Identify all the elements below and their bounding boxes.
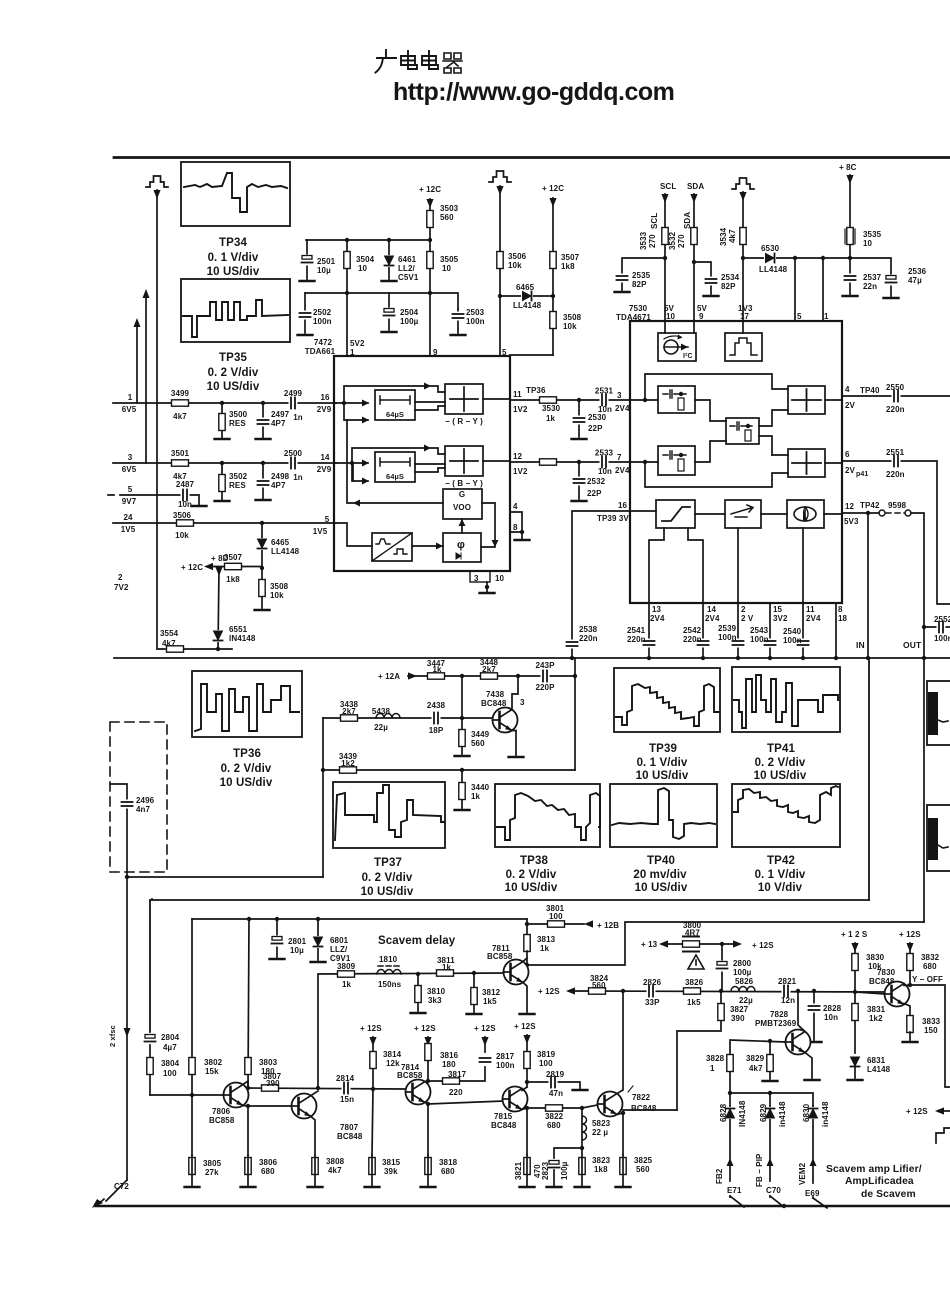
- wire 7807 emitter to 3808: [311, 1117, 315, 1156]
- svg-text:2535: 2535: [632, 271, 651, 280]
- wire 3438 corner down: [322, 718, 324, 877]
- svg-text:390: 390: [266, 1079, 280, 1088]
- resistor 3530 1k: [540, 397, 557, 403]
- ground under 6801: [311, 961, 326, 963]
- svg-text:+ 1 2 S: + 1 2 S: [841, 930, 868, 939]
- svg-text:10: 10: [442, 264, 452, 273]
- svg-text:5: 5: [325, 515, 330, 524]
- node 3832/collector: [908, 983, 912, 987]
- wire limiter legs to pins 13/14: [649, 528, 703, 603]
- svg-text:8: 8: [513, 523, 518, 532]
- svg-text:4P7: 4P7: [271, 419, 286, 428]
- svg-text:270: 270: [648, 234, 657, 248]
- svg-text:100: 100: [549, 912, 563, 921]
- capacitor 2539 100n: [732, 639, 744, 648]
- svg-text:RES: RES: [229, 419, 246, 428]
- node rail/2801: [275, 917, 279, 921]
- wire adderA to pin4: [825, 399, 842, 401]
- svg-text:http://www.go-gddq.com: http://www.go-gddq.com: [393, 78, 675, 106]
- svg-text:0. 1 V/div: 0. 1 V/div: [755, 869, 806, 881]
- resistor 3449 560: [461, 718, 463, 754]
- svg-text:2800: 2800: [733, 959, 752, 968]
- svg-text:16: 16: [320, 393, 330, 402]
- wire rail2: [305, 293, 458, 309]
- waveform TP34: [184, 173, 287, 212]
- svg-text:5438: 5438: [372, 707, 391, 716]
- svg-text:220n: 220n: [886, 470, 905, 479]
- svg-text:6801: 6801: [330, 936, 349, 945]
- wire pin2 to gnd rail: [737, 603, 739, 657]
- ground under 3810: [411, 1012, 426, 1014]
- resistor 3503 560: [429, 199, 431, 240]
- svg-text:TP36: TP36: [233, 748, 261, 760]
- svg-text:27k: 27k: [205, 1168, 219, 1177]
- capacitor 243P 220P: [518, 675, 575, 677]
- pulse glyph top-left: [146, 176, 168, 187]
- svg-text:100µ: 100µ: [400, 317, 419, 326]
- resistor 3508 10k: [261, 568, 263, 608]
- svg-text:3819: 3819: [537, 1050, 556, 1059]
- svg-text:3818: 3818: [439, 1158, 458, 1167]
- waveform TP42: [734, 786, 838, 823]
- svg-text:3829: 3829: [746, 1054, 765, 1063]
- transistor Q 7822 BC848: [598, 1092, 623, 1117]
- ground under 2534: [704, 295, 719, 297]
- svg-text:2826: 2826: [643, 978, 662, 987]
- svg-text:1k: 1k: [546, 414, 556, 423]
- svg-text:2817: 2817: [496, 1052, 515, 1061]
- svg-text:3805: 3805: [203, 1159, 222, 1168]
- ground under 3833: [909, 1032, 911, 1040]
- capacitor 2819 47n: [527, 1082, 580, 1089]
- svg-text:680: 680: [261, 1167, 275, 1176]
- svg-text:24: 24: [123, 513, 133, 522]
- node bus/7822 collector: [621, 989, 625, 993]
- svg-text:10 US/div: 10 US/div: [505, 882, 558, 894]
- net FB2 arrow: [727, 1158, 734, 1166]
- resistor 3508 10k (top): [552, 296, 554, 355]
- svg-text:VEM2: VEM2: [798, 1162, 807, 1185]
- node 1810/3810: [416, 972, 420, 976]
- resistor 3812 1k5: [473, 973, 475, 1012]
- svg-text:+ 12S: + 12S: [899, 930, 921, 939]
- wire 7438 emitter to gnd: [512, 731, 516, 756]
- resistor 3507 1k8 (top): [552, 198, 554, 296]
- wire 3806 column: [247, 1106, 249, 1155]
- svg-text:p41: p41: [856, 471, 868, 478]
- svg-text:E71: E71: [727, 1186, 742, 1195]
- node 3535/2537: [848, 256, 852, 260]
- ground under 2503: [451, 334, 466, 336]
- svg-text:3505: 3505: [440, 255, 459, 264]
- resistor 3829 4k7: [769, 1041, 771, 1079]
- wire 7830 emitter: [904, 1004, 910, 1015]
- transistor Q 7815 BC848: [503, 1087, 528, 1112]
- diode 6830 in4148: [812, 1106, 814, 1198]
- resistor (unlabeled) on pin12 wire: [540, 459, 557, 465]
- svg-text:12n: 12n: [781, 996, 795, 1005]
- svg-text:2501: 2501: [317, 257, 336, 266]
- wire limiter-mute-out: [695, 513, 725, 515]
- waveform TP41: [734, 675, 838, 728]
- svg-text:3V2: 3V2: [773, 614, 788, 623]
- svg-text:9V7: 9V7: [122, 497, 137, 506]
- transistor Q 7807 BC848: [292, 1094, 317, 1119]
- wire: pin5 to ramp: [336, 523, 372, 546]
- block I2C current source: [658, 333, 696, 361]
- warning triangle: [688, 955, 704, 969]
- svg-text:φ: φ: [457, 539, 465, 551]
- adder -(B-Y): [445, 446, 483, 476]
- svg-text:100n: 100n: [750, 635, 769, 644]
- wire base row y718: [323, 717, 492, 719]
- svg-text:10: 10: [358, 264, 368, 273]
- resistor 3813 1k: [524, 935, 530, 952]
- svg-text:C5V1: C5V1: [398, 273, 419, 282]
- svg-text:2V4: 2V4: [705, 614, 720, 623]
- svg-text:12: 12: [845, 502, 855, 511]
- node 3448/243P: [516, 674, 520, 678]
- adder -(R-Y): [445, 384, 483, 414]
- svg-text:1V5: 1V5: [313, 527, 328, 536]
- svg-text:E69: E69: [805, 1189, 820, 1198]
- resistor 3817 220: [428, 1067, 485, 1081]
- svg-text:10: 10: [666, 312, 676, 321]
- svg-text:2497: 2497: [271, 410, 290, 419]
- svg-text:220n: 220n: [683, 635, 702, 644]
- svg-text:5823: 5823: [592, 1119, 611, 1128]
- ground under 2801: [270, 958, 285, 960]
- capacitor 2497 4P7: [262, 403, 264, 438]
- capacitor 2532 22P: [578, 462, 580, 499]
- svg-text:2533: 2533: [595, 449, 614, 458]
- block 64uS (mid): [375, 452, 415, 482]
- svg-text:560: 560: [440, 213, 454, 222]
- svg-text:2k7: 2k7: [342, 707, 356, 716]
- ground under 2502: [298, 334, 313, 336]
- svg-text:3440: 3440: [471, 783, 490, 792]
- svg-text:+ 13: + 13: [641, 940, 658, 949]
- svg-text:100: 100: [163, 1069, 177, 1078]
- wire 3554 to 6551 node: [184, 648, 232, 650]
- resistor 3533 270: [662, 228, 668, 245]
- svg-text:10 US/div: 10 US/div: [207, 381, 260, 393]
- svg-text:15n: 15n: [340, 1095, 354, 1104]
- svg-text:2 V: 2 V: [741, 614, 754, 623]
- svg-text:64µS: 64µS: [386, 472, 404, 481]
- svg-text:2550: 2550: [886, 383, 905, 392]
- svg-text:18P: 18P: [429, 726, 444, 735]
- svg-text:22n: 22n: [863, 282, 877, 291]
- svg-text:64µS: 64µS: [386, 410, 404, 419]
- svg-text:3500: 3500: [229, 410, 248, 419]
- svg-text:7V2: 7V2: [114, 583, 129, 592]
- svg-text:+ 12S: + 12S: [360, 1024, 382, 1033]
- ground under 2498: [256, 499, 271, 501]
- node bus2/3502: [220, 461, 224, 465]
- svg-text:22P: 22P: [588, 424, 603, 433]
- svg-text:3534: 3534: [719, 227, 728, 246]
- svg-text:1V5: 1V5: [121, 525, 136, 534]
- svg-text:100n: 100n: [466, 317, 485, 326]
- resistor 3554 4k7: [167, 646, 184, 652]
- svg-text:12: 12: [513, 452, 523, 461]
- wire out leg to pin 11: [802, 528, 804, 603]
- resistor 3802 15k: [189, 1058, 195, 1075]
- svg-text:3814: 3814: [383, 1050, 402, 1059]
- svg-text:10 US/div: 10 US/div: [636, 770, 689, 782]
- node bus/2828: [812, 989, 816, 993]
- svg-text:+ 12S: + 12S: [414, 1024, 436, 1033]
- wire 7828 base bus: [730, 1040, 786, 1093]
- wire delayB to mid: [695, 441, 788, 462]
- ground under 3812: [467, 1013, 482, 1015]
- svg-text:270: 270: [677, 234, 686, 248]
- svg-text:100µ: 100µ: [733, 968, 752, 977]
- svg-text:5: 5: [797, 312, 802, 321]
- svg-text:2438: 2438: [427, 701, 446, 710]
- svg-text:7530: 7530: [629, 304, 648, 313]
- svg-text:10µ: 10µ: [290, 946, 304, 955]
- node base/3449: [460, 716, 464, 720]
- wire pin3 node and upper loop: [630, 374, 788, 400]
- supply +12B arrow: [584, 920, 593, 927]
- resistor 3807 390: [262, 1085, 279, 1091]
- svg-text:3833: 3833: [922, 1017, 941, 1026]
- capacitor 2504 100u electrolytic: [388, 293, 390, 330]
- wire 7828 collector: [798, 991, 805, 1032]
- svg-text:+ 12B: + 12B: [597, 921, 619, 930]
- diode 6828 IN4148: [729, 1093, 731, 1197]
- resistor 3499: [172, 400, 189, 406]
- svg-text:BC858: BC858: [487, 952, 513, 961]
- svg-text:10n: 10n: [598, 405, 612, 414]
- svg-text:82P: 82P: [632, 280, 647, 289]
- resistor 3815 39k: [372, 1089, 373, 1155]
- wire pin11 to pin3: [510, 399, 630, 401]
- svg-text:15: 15: [773, 605, 783, 614]
- svg-text:2801: 2801: [288, 937, 307, 946]
- svg-text:2823: 2823: [541, 1161, 550, 1180]
- wire 3809 feed: [318, 973, 505, 1088]
- svg-text:1V2: 1V2: [513, 405, 528, 414]
- wire to TP37 area left: [127, 876, 323, 878]
- svg-text:2V4: 2V4: [615, 466, 630, 475]
- svg-text:2V4: 2V4: [615, 404, 630, 413]
- label 2xfsc rotated: [108, 1025, 117, 1047]
- svg-text:TP38: TP38: [520, 855, 548, 867]
- arrow down into wire: [153, 190, 160, 199]
- svg-text:4k7: 4k7: [173, 412, 187, 421]
- node bus2/2498: [261, 461, 265, 465]
- ground under 3502: [215, 500, 230, 502]
- resistor 3809 1k: [338, 971, 355, 977]
- svg-text:Scavem amp Lifier/: Scavem amp Lifier/: [826, 1164, 922, 1175]
- resistor 3439 1k2: [340, 767, 357, 773]
- node 3814/3815: [371, 1087, 375, 1091]
- wire 3802 column: [191, 919, 193, 1155]
- diode 6831 L4148: [850, 1056, 860, 1068]
- svg-text:33P: 33P: [645, 998, 660, 1007]
- svg-text:10n: 10n: [178, 500, 192, 509]
- wire: short vertical with up arrow at x137: [136, 325, 138, 403]
- node 2552: [922, 625, 926, 629]
- svg-text:1: 1: [824, 312, 829, 321]
- svg-text:3826: 3826: [685, 978, 704, 987]
- wire: adder1 to pin 11: [483, 398, 510, 400]
- node 3447/3448: [460, 674, 464, 678]
- wire 7822 collector to +12S node: [617, 991, 623, 1094]
- node pin12/in-column: [866, 511, 870, 515]
- node 3802/base bus: [190, 1093, 194, 1097]
- svg-text:2541: 2541: [627, 626, 646, 635]
- svg-text:C70: C70: [766, 1186, 781, 1195]
- svg-text:+ 12A: + 12A: [378, 672, 400, 681]
- svg-text:2499: 2499: [284, 389, 303, 398]
- svg-text:100n: 100n: [313, 317, 332, 326]
- svg-text:2: 2: [118, 573, 123, 582]
- svg-text:10k: 10k: [563, 322, 577, 331]
- wire delayA to mid to adderA: [695, 400, 788, 455]
- capacitor 2502 100n: [304, 293, 306, 333]
- wire rail corner to 3813: [526, 919, 528, 936]
- node base/3829: [768, 1039, 772, 1043]
- capacitor 2530 22P: [578, 400, 580, 437]
- wire 7438 collector: [512, 676, 518, 710]
- svg-text:2k7: 2k7: [482, 665, 496, 674]
- svg-text:2537: 2537: [863, 273, 882, 282]
- wire pin8 to gnd rail: [835, 603, 837, 657]
- svg-text:+ 8C: + 8C: [839, 163, 857, 172]
- pins 4/8 bracket right: [510, 512, 522, 532]
- svg-text:1k8: 1k8: [594, 1165, 608, 1174]
- wire 7822 emitter node: [617, 1110, 677, 1155]
- svg-text:3821: 3821: [514, 1161, 523, 1180]
- diode 6551 IN4148: [218, 567, 219, 650]
- wire: adder2 to pin 12: [483, 460, 510, 462]
- wire diode rail: [730, 1093, 813, 1106]
- resistor 3502 RES: [221, 463, 223, 500]
- svg-text:220: 220: [449, 1088, 463, 1097]
- svg-text:6V5: 6V5: [122, 465, 137, 474]
- zener 6801 LLZ/C9V1: [317, 919, 319, 960]
- wire: ramp to phase det: [412, 545, 443, 547]
- capacitor 2499 1n: [289, 397, 298, 409]
- block phase detector: [443, 533, 481, 562]
- svg-text:1810: 1810: [379, 955, 398, 964]
- resistor 3506 10k (top): [497, 252, 503, 269]
- node bus/3827/2800: [719, 989, 723, 993]
- svg-text:20 mv/div: 20 mv/div: [633, 869, 687, 881]
- ground under 2823: [547, 1186, 562, 1188]
- svg-text:TP37: TP37: [374, 857, 402, 869]
- svg-text:7807: 7807: [340, 1123, 359, 1132]
- capacitor 2552 100n: [924, 626, 950, 628]
- svg-text:3507: 3507: [561, 253, 580, 262]
- svg-text:4k7: 4k7: [728, 229, 737, 243]
- svg-text:VOO: VOO: [453, 503, 471, 512]
- capacitor 2804 4u7: [144, 1034, 156, 1045]
- capacitor 2542 220n: [697, 639, 709, 648]
- svg-text:2821: 2821: [778, 977, 797, 986]
- node 7807 collector: [316, 1086, 320, 1090]
- svg-text:2500: 2500: [284, 449, 303, 458]
- svg-text:3: 3: [474, 574, 479, 583]
- wire base bus into 7830: [855, 992, 885, 994]
- svg-text:3502: 3502: [229, 472, 248, 481]
- node rail/6801: [316, 917, 320, 921]
- capacitor 2541 220n: [643, 639, 655, 648]
- svg-text:680: 680: [923, 962, 937, 971]
- svg-text:2: 2: [741, 605, 746, 614]
- node 3811/3812: [472, 971, 476, 975]
- resistor 3816 180: [427, 1037, 429, 1081]
- svg-text:1k: 1k: [432, 665, 442, 674]
- svg-text:0. 2 V/div: 0. 2 V/div: [208, 367, 259, 379]
- wire pin16 TP39: [572, 511, 630, 657]
- capacitor 2531 10n: [600, 394, 609, 406]
- resistor 3438 2k7: [341, 715, 358, 721]
- svg-text:− ( R − Y ): − ( R − Y ): [445, 417, 483, 426]
- capacitor 2535 82P: [622, 258, 665, 290]
- svg-text:IN4148: IN4148: [229, 634, 256, 643]
- svg-text:3816: 3816: [440, 1051, 459, 1060]
- ground under 3825: [616, 1186, 631, 1188]
- IC box 7530: [630, 321, 842, 603]
- ground under 3821: [520, 1186, 535, 1188]
- wire pin12 to pin7: [510, 461, 630, 463]
- wire 7815 emitter node: [522, 1108, 527, 1155]
- svg-text:in4148: in4148: [821, 1101, 830, 1127]
- cut scope box 2: [927, 805, 950, 871]
- svg-text:3831: 3831: [867, 1005, 886, 1014]
- svg-text:10k: 10k: [175, 531, 189, 540]
- ground under 3500: [215, 438, 230, 440]
- svg-text:10 US/div: 10 US/div: [361, 886, 414, 898]
- svg-text:47n: 47n: [549, 1089, 563, 1098]
- svg-text:100n: 100n: [496, 1061, 515, 1070]
- svg-text:17: 17: [740, 312, 750, 321]
- svg-text:3449: 3449: [471, 730, 490, 739]
- svg-text:3506: 3506: [508, 252, 527, 261]
- svg-text:1k8: 1k8: [226, 575, 240, 584]
- svg-text:220n: 220n: [886, 405, 905, 414]
- svg-text:2V: 2V: [845, 401, 856, 410]
- svg-text:1k2: 1k2: [869, 1014, 883, 1023]
- svg-text:BC848: BC848: [337, 1132, 363, 1141]
- svg-text:150: 150: [924, 1026, 938, 1035]
- node pin5 drop: [793, 256, 797, 260]
- svg-text:22µ: 22µ: [739, 996, 753, 1005]
- capacitor 2538 220n: [566, 640, 578, 649]
- svg-text:100µ: 100µ: [560, 1161, 569, 1180]
- svg-text:7822: 7822: [632, 1093, 651, 1102]
- node 3440: [460, 768, 464, 772]
- svg-text:3817: 3817: [448, 1070, 467, 1079]
- resistor 3830 10k: [854, 943, 856, 992]
- resistor 3823 1k8: [579, 1158, 585, 1175]
- net FB-PIP arrow: [767, 1158, 774, 1166]
- wire bus2: [113, 462, 336, 464]
- wire 7807 collector lead: [311, 1091, 318, 1096]
- svg-text:10 V/div: 10 V/div: [758, 882, 803, 894]
- svg-text:+ 12C: + 12C: [181, 563, 203, 572]
- ground under 6831: [848, 1079, 863, 1081]
- svg-text:+ 12C: + 12C: [419, 185, 441, 194]
- svg-text:TDA661: TDA661: [305, 347, 336, 356]
- svg-text:18: 18: [838, 614, 848, 623]
- resistor 3801 100: [527, 923, 584, 925]
